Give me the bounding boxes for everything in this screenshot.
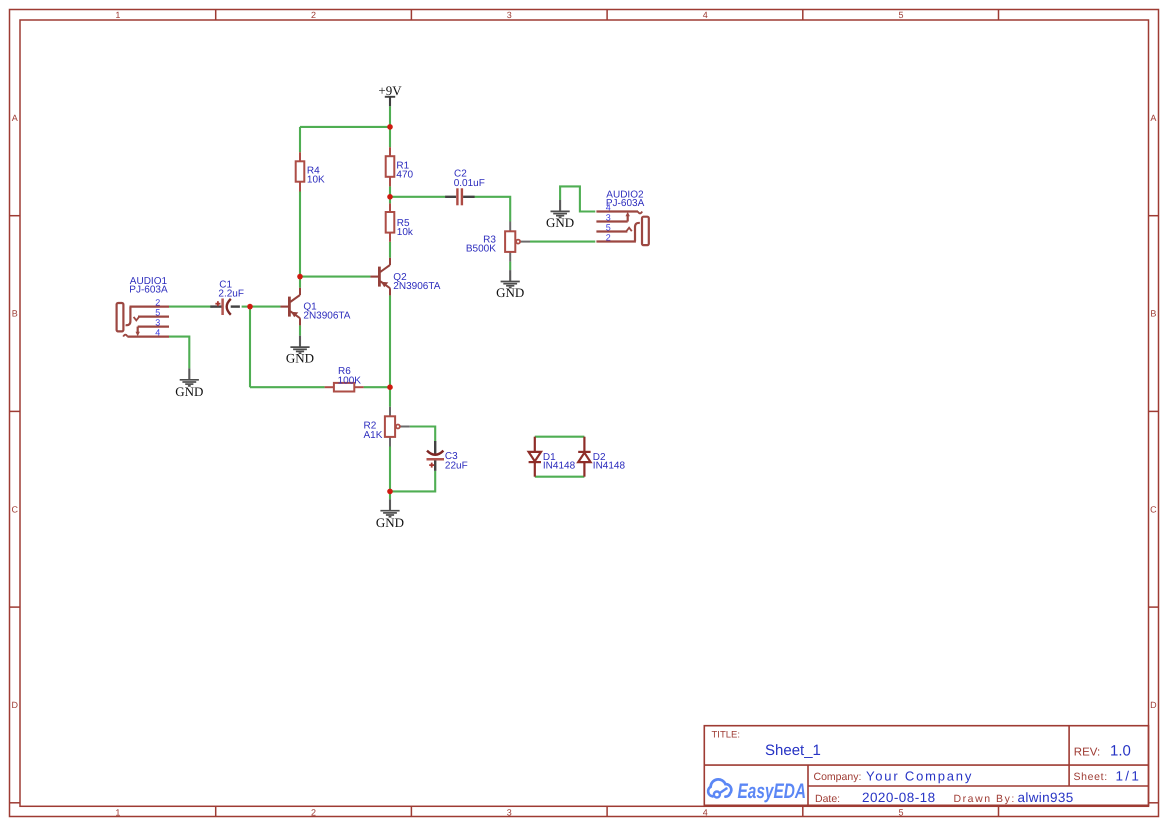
wire R2 wiper to C3 — [410, 427, 435, 442]
transistor Q2 — [370, 258, 440, 296]
svg-text:GND: GND — [376, 515, 404, 530]
node junction R1/R5/C2 — [387, 194, 393, 200]
svg-text:B500K: B500K — [466, 244, 496, 255]
wire node to R5 top — [389, 197, 391, 204]
svg-text:EasyEDA: EasyEDA — [738, 780, 807, 803]
wire feedback vertical — [249, 307, 251, 388]
wire node to Q2 base — [300, 276, 370, 278]
svg-text:2N3906TA: 2N3906TA — [393, 281, 440, 292]
svg-text:2: 2 — [155, 298, 160, 308]
wire R3 bottom to ground — [509, 262, 511, 271]
wire node to R2 top — [389, 387, 391, 407]
svg-text:A: A — [1150, 113, 1156, 123]
svg-text:PJ-603A: PJ-603A — [129, 285, 168, 296]
potentiometer R2 — [364, 407, 410, 447]
svg-text:1: 1 — [115, 807, 120, 817]
wire to R4 top — [299, 127, 301, 152]
svg-text:4: 4 — [703, 10, 708, 20]
svg-text:2N3906TA: 2N3906TA — [303, 311, 350, 322]
node junction C3/GND — [387, 489, 393, 495]
wire node to ground — [389, 491, 391, 499]
svg-text:10K: 10K — [307, 175, 325, 186]
svg-text:B: B — [12, 309, 18, 319]
wire R1 bottom to node — [389, 186, 391, 196]
svg-text:470: 470 — [396, 170, 413, 181]
wire C2 to R3 — [474, 197, 510, 222]
svg-text:100K: 100K — [338, 375, 362, 386]
svg-text:Sheet_1: Sheet_1 — [765, 742, 821, 759]
wire top rail horizontal — [300, 126, 390, 128]
svg-text:IN4148: IN4148 — [543, 461, 576, 472]
svg-text:1.0: 1.0 — [1110, 743, 1131, 760]
wire node to Q1 collector — [299, 277, 301, 288]
wire to R6 left — [250, 386, 325, 388]
wire Q1 emitter to ground — [299, 325, 301, 335]
svg-text:22uF: 22uF — [445, 460, 468, 471]
capacitor C2 — [445, 169, 485, 206]
svg-text:3: 3 — [606, 213, 611, 223]
wire AUDIO2 pin4 to ground — [560, 186, 595, 211]
title block — [704, 726, 1148, 806]
svg-text:5: 5 — [155, 308, 160, 318]
svg-text:3: 3 — [155, 318, 160, 328]
resistor R1 — [386, 147, 414, 186]
wire AUDIO1 pin4 to ground — [169, 337, 189, 369]
svg-text:D: D — [1150, 700, 1157, 710]
svg-text:4: 4 — [606, 203, 611, 213]
svg-text:2.2uF: 2.2uF — [218, 289, 244, 300]
wire R3 wiper to AUDIO2 — [530, 241, 595, 243]
resistor R6 — [325, 366, 364, 391]
wire diode pair top — [535, 436, 585, 438]
svg-text:B: B — [1150, 309, 1156, 319]
wire node to C2 — [390, 196, 445, 198]
node junction R6/Q2 emitter — [387, 384, 393, 390]
wire R4 bottom to node — [299, 192, 301, 277]
svg-text:3: 3 — [507, 10, 512, 20]
capacitor C3 — [427, 441, 468, 471]
power +9V — [378, 83, 402, 106]
svg-text:alwin935: alwin935 — [1018, 790, 1074, 805]
svg-text:+9V: +9V — [378, 83, 402, 98]
svg-text:Company:: Company: — [814, 771, 862, 783]
wire +9V stem — [389, 106, 391, 127]
diode D2 — [578, 437, 625, 477]
svg-text:5: 5 — [898, 10, 903, 20]
svg-text:GND: GND — [496, 285, 524, 300]
svg-text:C: C — [1150, 505, 1157, 515]
wire R2 bottom to node — [389, 447, 391, 492]
transistor Q1 — [280, 288, 350, 326]
diode D1 — [529, 437, 576, 477]
svg-text:Drawn By:: Drawn By: — [954, 793, 1016, 805]
svg-text:GND: GND — [546, 215, 574, 230]
wire AUDIO1 pin2 to C1 — [169, 306, 213, 308]
svg-text:REV:: REV: — [1074, 747, 1100, 759]
wire diode pair bottom — [535, 476, 585, 478]
wire C1 to node — [242, 306, 250, 308]
svg-text:C: C — [11, 505, 18, 515]
resistor R4 — [296, 152, 325, 191]
svg-text:0.01uF: 0.01uF — [454, 178, 485, 189]
svg-text:4: 4 — [703, 807, 708, 817]
wire node to Q1 base — [250, 306, 280, 308]
wire R6 right to node — [364, 386, 390, 388]
svg-text:5: 5 — [898, 807, 903, 817]
connector AUDIO1 — [117, 276, 169, 337]
svg-text:2020-08-18: 2020-08-18 — [862, 790, 936, 805]
wire to R1 top — [389, 127, 391, 147]
wire Q2 emitter down — [389, 295, 391, 387]
svg-text:1/1: 1/1 — [1116, 769, 1142, 784]
svg-text:2: 2 — [606, 233, 611, 243]
wire R5 bottom to Q2 collector — [389, 242, 391, 258]
node junction C1/Q1 base — [247, 304, 253, 310]
node junction at +9V rail — [387, 124, 393, 130]
svg-text:10k: 10k — [397, 227, 414, 238]
wire C3 bottom to node — [390, 471, 435, 492]
svg-text:1: 1 — [115, 10, 120, 20]
ground GND (under AUDIO1) — [175, 368, 203, 399]
potentiometer R3 — [466, 222, 530, 262]
ground GND (under Q1) — [286, 336, 314, 366]
connector AUDIO2 — [596, 190, 648, 245]
svg-text:GND: GND — [286, 351, 314, 366]
svg-text:A1K: A1K — [364, 430, 383, 441]
svg-text:Your Company: Your Company — [866, 768, 973, 783]
svg-text:4: 4 — [155, 328, 160, 338]
svg-text:3: 3 — [507, 807, 512, 817]
svg-text:Sheet:: Sheet: — [1074, 771, 1108, 783]
svg-text:2: 2 — [311, 807, 316, 817]
svg-text:A: A — [12, 113, 18, 123]
svg-text:IN4148: IN4148 — [593, 461, 626, 472]
EasyEDA logo — [708, 779, 806, 803]
svg-text:5: 5 — [606, 223, 611, 233]
node junction R4/Q1/Q2 — [297, 274, 303, 280]
svg-text:TITLE:: TITLE: — [712, 730, 741, 741]
svg-text:Date:: Date: — [815, 793, 840, 805]
ground GND (near AUDIO2) — [546, 200, 574, 230]
svg-text:PJ-603A: PJ-603A — [606, 198, 645, 209]
svg-text:D: D — [11, 700, 18, 710]
resistor R5 — [386, 203, 414, 241]
ground GND (bottom) — [376, 499, 404, 530]
svg-text:GND: GND — [175, 384, 203, 399]
svg-text:2: 2 — [311, 10, 316, 20]
capacitor C1 — [210, 279, 244, 315]
ground GND (under R3) — [496, 270, 524, 300]
